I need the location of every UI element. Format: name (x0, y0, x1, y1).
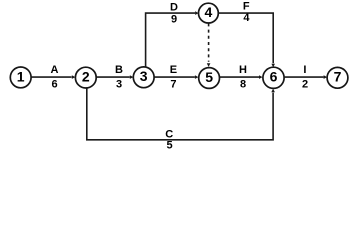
svg-text:8: 8 (240, 78, 246, 90)
wire B (2 to 3) (96, 75, 133, 79)
svg-text:I: I (303, 64, 306, 76)
svg-text:5: 5 (205, 69, 213, 85)
svg-text:A: A (51, 64, 59, 76)
label E/7 (170, 64, 177, 90)
svg-text:3: 3 (140, 68, 148, 84)
svg-text:7: 7 (170, 78, 176, 90)
svg-text:1: 1 (17, 68, 25, 84)
svg-text:F: F (243, 0, 250, 12)
svg-text:6: 6 (270, 69, 278, 85)
node 5 (199, 68, 220, 89)
label F/4 (243, 0, 250, 24)
wire A (1 to 2) (31, 75, 75, 79)
label H/8 (239, 64, 247, 90)
wire F elbow (4 right and down to 6) (218, 13, 275, 67)
svg-text:5: 5 (166, 139, 172, 151)
wire I (6 to 7) (285, 75, 328, 79)
label C/5 (165, 129, 173, 152)
label I/2 (302, 64, 308, 90)
node 7 (327, 67, 348, 88)
svg-text:2: 2 (302, 78, 308, 90)
svg-text:4: 4 (205, 4, 213, 20)
svg-text:3: 3 (116, 78, 122, 90)
svg-text:D: D (170, 2, 178, 14)
label B/3 (115, 64, 123, 90)
svg-text:H: H (239, 64, 247, 76)
svg-text:6: 6 (51, 78, 57, 90)
node 1 (10, 67, 31, 88)
dashed dummy wire (4 down to 5) (207, 23, 211, 67)
node 3 (133, 67, 154, 88)
node 4 (199, 3, 219, 23)
node 2 (75, 67, 96, 88)
wire C elbow (2 down, right, up to 6) (87, 88, 275, 140)
svg-text:4: 4 (243, 12, 250, 24)
wire H (5 to 6) (220, 75, 263, 79)
wire E (3 to 5) (154, 75, 198, 79)
svg-text:7: 7 (334, 69, 342, 85)
svg-text:B: B (115, 64, 123, 76)
svg-text:E: E (170, 64, 177, 76)
wire D elbow (3 up and right to 4) (146, 11, 199, 67)
node 6 (263, 67, 284, 88)
label D/9 (170, 2, 178, 26)
label A/6 (51, 64, 59, 90)
svg-text:2: 2 (82, 69, 90, 85)
svg-text:9: 9 (171, 14, 177, 26)
